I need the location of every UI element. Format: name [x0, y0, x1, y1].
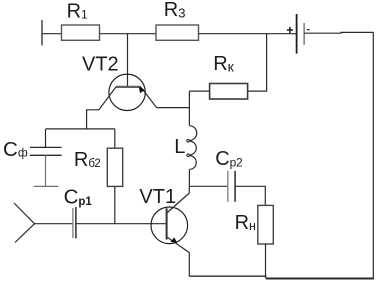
wire top rail: battery to right corner: [304, 31, 373, 34]
wire Rk right lead up to top rail: [248, 34, 267, 91]
wire C-phi bottom lead: [45, 155, 47, 186]
wire input to Cp1: [35, 223, 73, 225]
svg-text:VT2: VT2: [82, 54, 119, 76]
input fork terminal: [14, 203, 35, 243]
open terminal bar under C-phi: [34, 185, 59, 187]
wire VT2 emitter run: [157, 107, 190, 109]
svg-text:Rб2: Rб2: [74, 149, 100, 171]
svg-text:Cр1: Cр1: [64, 186, 93, 209]
resistor R3: [156, 0, 199, 40]
wire top rail: bar to R1: [42, 33, 62, 35]
wire Cp2 to Rn: [235, 186, 265, 205]
battery GB: [287, 14, 310, 54]
wire VT2 collector step: [87, 110, 99, 129]
wire VT1 emitter drop: [188, 253, 190, 277]
wire down to C-phi: [45, 129, 47, 148]
resistor R1: [62, 0, 100, 40]
svg-text:L: L: [174, 136, 185, 158]
inductor L: [174, 126, 197, 170]
wire top rail: R3 to battery: [199, 33, 297, 35]
wire top rail: R1 to R3: [100, 33, 157, 35]
wire Rb2 bottom lead: [114, 186, 116, 223]
wire bottom rail right: [266, 278, 374, 280]
wire node to Cp2: [189, 185, 227, 187]
wire VT1 collector stub: [188, 186, 190, 193]
resistor Rk: [210, 53, 248, 99]
wire node vertical Rk/emitter to L: [188, 91, 190, 126]
capacitor Cp2: [215, 148, 243, 202]
wire VT2 base drop from top rail: [127, 34, 129, 87]
svg-text:Rн: Rн: [235, 212, 256, 234]
svg-text:Cф: Cф: [3, 138, 28, 161]
wire bottom rail left: [189, 275, 266, 277]
wire R-b2 top lead: [114, 129, 116, 148]
wire junction to VT1 base: [115, 223, 167, 225]
svg-text:Cр2: Cр2: [215, 148, 243, 170]
resistor Rn: [235, 205, 274, 244]
wire L bottom to collector node: [188, 170, 190, 187]
wire bias bus horizontal: [46, 128, 115, 130]
svg-text:VT1: VT1: [139, 186, 176, 208]
transistor VT2 (PNP): [82, 54, 157, 111]
capacitor Cp1: [64, 186, 93, 239]
svg-text:R3: R3: [164, 0, 186, 21]
wire Rk left lead: [189, 90, 209, 92]
resistor Rb2: [74, 148, 123, 186]
svg-text:R1: R1: [67, 0, 88, 22]
wire Rn bottom lead: [265, 244, 267, 279]
wire Cp1 to junction: [76, 223, 115, 225]
svg-text:Rк: Rк: [213, 53, 234, 75]
transistor VT1 (NPN): [139, 186, 189, 252]
terminal bar (top-left input): [41, 20, 43, 45]
capacitor C-phi: [3, 138, 62, 161]
wire right edge (down to bottom rail): [372, 32, 374, 278]
